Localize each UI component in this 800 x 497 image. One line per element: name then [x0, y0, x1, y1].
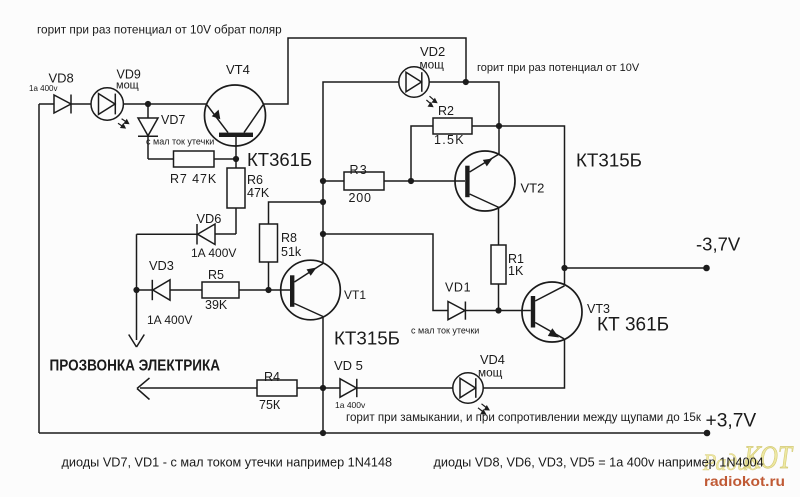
node R3 left: [320, 178, 326, 184]
resistor R7: [148, 151, 236, 167]
node R2 right: [496, 123, 502, 129]
wire VD6 down to VD3 node: [136, 234, 138, 340]
resistor R5: [202, 282, 291, 298]
svg-text:R6: R6: [247, 173, 263, 187]
svg-text:51k: 51k: [281, 245, 302, 259]
svg-text:VD6: VD6: [197, 211, 222, 226]
svg-text:1а 400v: 1а 400v: [335, 400, 366, 410]
svg-text:39K: 39K: [205, 298, 228, 312]
svg-text:диоды VD7, VD1 - с мал током у: диоды VD7, VD1 - с мал током утечки напр…: [62, 456, 393, 470]
svg-text:R4: R4: [264, 370, 280, 384]
svg-text:1K: 1K: [508, 264, 524, 278]
diode VD3: [137, 280, 203, 300]
node -3.7V tap: [561, 265, 567, 271]
resistor R3: [323, 172, 465, 190]
svg-text:VD1: VD1: [445, 281, 471, 295]
node R1 bottom: [495, 307, 501, 313]
node VD2 right: [463, 79, 469, 85]
LED VD4 light arrows: [478, 404, 490, 415]
svg-text:1A 400V: 1A 400V: [191, 246, 236, 260]
svg-text:VD 5: VD 5: [334, 358, 363, 373]
svg-text:ПРОЗВОНКА ЭЛЕКТРИКА: ПРОЗВОНКА ЭЛЕКТРИКА: [50, 358, 221, 375]
LED VD2: [399, 67, 429, 97]
wire VT2 emitter to -3.7V branch: [499, 126, 565, 286]
node VD1 branch: [320, 231, 326, 237]
svg-text:мощ: мощ: [116, 80, 139, 92]
svg-text:с мал ток утечки: с мал ток утечки: [146, 137, 214, 147]
wire VD2 right to VT2: [429, 82, 499, 155]
node R7/R6 junction: [233, 156, 239, 162]
svg-text:КТ315Б: КТ315Б: [576, 150, 642, 171]
node VD7 tap: [145, 101, 151, 107]
svg-text:+3,7V: +3,7V: [706, 411, 757, 432]
resistor R1: [491, 208, 506, 311]
svg-text:R5: R5: [208, 268, 224, 282]
svg-text:75К: 75К: [259, 398, 281, 412]
svg-text:R7 47K: R7 47K: [170, 172, 217, 186]
node VD3 junction: [133, 287, 139, 293]
wire VD8 to VD9: [71, 103, 91, 105]
wire VD1 branch: [323, 234, 448, 311]
transistor VT2: [455, 151, 515, 211]
wire VD9 to VT4: [123, 103, 206, 105]
svg-text:VT1: VT1: [344, 288, 366, 302]
resistor R8: [260, 202, 324, 290]
svg-text:R2: R2: [438, 104, 454, 118]
svg-text:горит при раз потенциал от 10V: горит при раз потенциал от 10V: [477, 62, 640, 74]
wire VD8 left lead: [39, 103, 54, 105]
node R4/VD5 junction: [320, 385, 326, 391]
diode VD5: [323, 379, 453, 397]
svg-text:мощ: мощ: [420, 58, 445, 72]
svg-text:VT4: VT4: [226, 62, 250, 77]
LED VD9 light arrows: [118, 119, 130, 129]
diode VD1: [448, 302, 531, 320]
diode VD6: [137, 224, 237, 245]
wire left rail: [38, 104, 40, 433]
svg-text:горит при раз потенциал от 10V: горит при раз потенциал от 10V обрат пол…: [37, 23, 282, 37]
svg-text:1а 400v: 1а 400v: [29, 84, 57, 93]
svg-text:R8: R8: [281, 231, 297, 245]
transistor VT3: [522, 282, 582, 342]
svg-text:-3,7V: -3,7V: [696, 234, 741, 255]
transistor VT1: [281, 260, 341, 320]
svg-text:1A 400V: 1A 400V: [147, 313, 192, 327]
wire bottom rail: [39, 432, 707, 434]
wire VD4 to VT3 emitter: [483, 340, 564, 388]
node rail end: [704, 430, 711, 437]
node R2 bottom: [408, 178, 414, 184]
svg-text:VT2: VT2: [521, 181, 545, 196]
diode VD8: [54, 95, 71, 114]
node R8 bottom junction: [265, 287, 271, 293]
wire VT1 emitter down: [322, 317, 324, 434]
wire VD2 left branch: [323, 82, 399, 264]
svg-text:горит при замыкании, и при соп: горит при замыкании, и при сопротивлении…: [346, 411, 702, 424]
probe arrow down: [129, 335, 145, 348]
svg-text:200: 200: [349, 191, 372, 205]
transistor VT4: [205, 85, 266, 159]
svg-text:47K: 47K: [247, 186, 270, 200]
svg-text:VD7: VD7: [161, 113, 185, 127]
node -3.7V end: [703, 265, 710, 272]
svg-text:1.5K: 1.5K: [434, 133, 465, 147]
svg-text:КТ361Б: КТ361Б: [247, 149, 312, 170]
resistor R6: [227, 159, 245, 234]
svg-text:R3: R3: [350, 163, 368, 177]
svg-text:диоды VD8, VD6, VD3, VD5 = 1а: диоды VD8, VD6, VD3, VD5 = 1а 400v напри…: [434, 456, 764, 470]
LED VD4: [453, 373, 483, 403]
node bottom rail junction: [320, 430, 326, 436]
diode VD7: [138, 104, 158, 159]
resistor R2: [411, 118, 499, 181]
svg-text:КТ 361Б: КТ 361Б: [597, 315, 669, 336]
svg-text:КТ315Б: КТ315Б: [334, 328, 400, 349]
svg-text:VD3: VD3: [149, 258, 174, 273]
node R8 top: [320, 199, 326, 205]
wire -3.7V line: [565, 267, 707, 269]
LED VD2 light arrows: [426, 96, 437, 107]
svg-text:radiokot.ru: radiokot.ru: [704, 473, 785, 489]
LED VD9: [91, 88, 123, 120]
svg-text:мощ: мощ: [478, 366, 503, 380]
watermark РадиоКОТ: [702, 440, 794, 476]
wire VT4 to top rail: [263, 38, 466, 104]
svg-text:с мал ток утечки: с мал ток утечки: [411, 326, 479, 336]
resistor R4: [137, 378, 323, 400]
